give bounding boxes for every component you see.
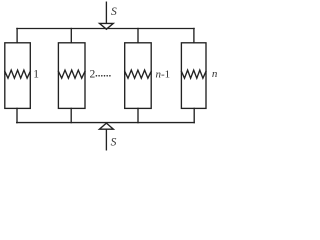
wire bottom force line (105, 129, 107, 150)
svg-text:1: 1 (33, 68, 39, 80)
svg-text:2: 2 (90, 69, 96, 81)
wire stub top element 1 (16, 29, 18, 43)
wire stub bottom element n (193, 108, 195, 122)
svg-text:S: S (111, 137, 117, 149)
svg-text:n-1: n-1 (156, 68, 171, 80)
wire stub top element n-1 (137, 29, 139, 43)
wire stub bottom element 1 (16, 108, 18, 122)
spring zigzag 1 (5, 70, 31, 78)
spring zigzag n (181, 70, 206, 78)
wire stub bottom element n-1 (137, 108, 139, 122)
element box 1 (5, 43, 31, 109)
force arrowhead top (open triangle) (100, 23, 114, 29)
spring zigzag 2 (58, 70, 85, 78)
svg-text:S: S (111, 6, 117, 18)
svg-text:n: n (212, 68, 218, 80)
element box n (181, 43, 206, 109)
wire top bus (17, 28, 194, 30)
force arrowhead bottom (open triangle) (99, 123, 113, 129)
wire stub top element n (193, 29, 195, 43)
wire stub top element 2 (70, 29, 72, 43)
wire stub bottom element 2 (70, 108, 72, 122)
element box n-1 (125, 43, 152, 109)
ellipsis dots (96, 75, 111, 77)
element box 2 (58, 43, 85, 109)
spring zigzag n-1 (125, 70, 152, 78)
wire top force line (105, 2, 107, 22)
wire bottom bus (17, 122, 195, 124)
